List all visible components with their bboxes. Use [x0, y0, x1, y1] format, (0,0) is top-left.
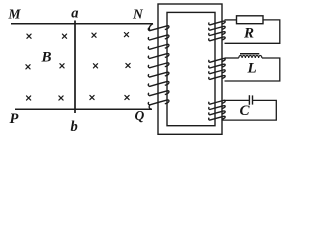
- transformer core outer rectangle: [158, 4, 222, 134]
- secondary winding section 2 (to L): [209, 58, 225, 62]
- wire: secondary tap to resistor: [225, 19, 237, 21]
- capacitor C plates: [248, 95, 250, 105]
- primary winding (left limb): [149, 24, 153, 31]
- field cross row 3 col 4: [125, 95, 129, 99]
- wire: inductor loop right and bottom: [225, 58, 280, 81]
- field cross row 1 col 4: [124, 33, 128, 37]
- resistor R box: [237, 16, 264, 24]
- svg-text:M: M: [8, 7, 22, 22]
- svg-text:C: C: [240, 103, 251, 119]
- field cross row 3 col 1: [27, 96, 31, 100]
- svg-text:b: b: [71, 119, 78, 135]
- wire: capacitor loop right and bottom: [223, 100, 277, 120]
- svg-text:P: P: [10, 111, 19, 127]
- field cross row 1 col 3: [92, 33, 96, 37]
- conducting rod ab: [74, 21, 76, 114]
- svg-text:R: R: [243, 25, 254, 41]
- svg-text:L: L: [247, 60, 257, 76]
- field cross row 2 col 2: [60, 64, 64, 68]
- svg-text:Q: Q: [135, 108, 145, 123]
- field cross row 2 col 1: [26, 65, 30, 69]
- field cross row 2 col 3: [93, 64, 97, 68]
- transformer core inner rectangle: [167, 12, 215, 125]
- svg-text:N: N: [132, 6, 144, 21]
- wire: bottom rail P-Q: [15, 108, 152, 110]
- wire: secondary tap to capacitor: [224, 99, 250, 101]
- wire: secondary tap to inductor: [225, 57, 239, 59]
- field cross row 1 col 2: [62, 34, 66, 38]
- inductor L humps: [239, 55, 262, 58]
- svg-text:B: B: [41, 49, 52, 65]
- inductor core bar: [240, 53, 259, 55]
- field cross row 3 col 2: [59, 96, 63, 100]
- wire: resistor to right side down and back: [225, 20, 280, 43]
- field cross row 3 col 3: [90, 95, 94, 99]
- secondary winding section 1 (to R): [209, 21, 225, 25]
- svg-text:a: a: [71, 5, 78, 21]
- field cross row 2 col 4: [126, 63, 130, 67]
- field cross row 1 col 1: [27, 34, 31, 38]
- wire: top rail M-N: [11, 23, 153, 25]
- secondary winding section 3 (to C): [209, 100, 225, 104]
